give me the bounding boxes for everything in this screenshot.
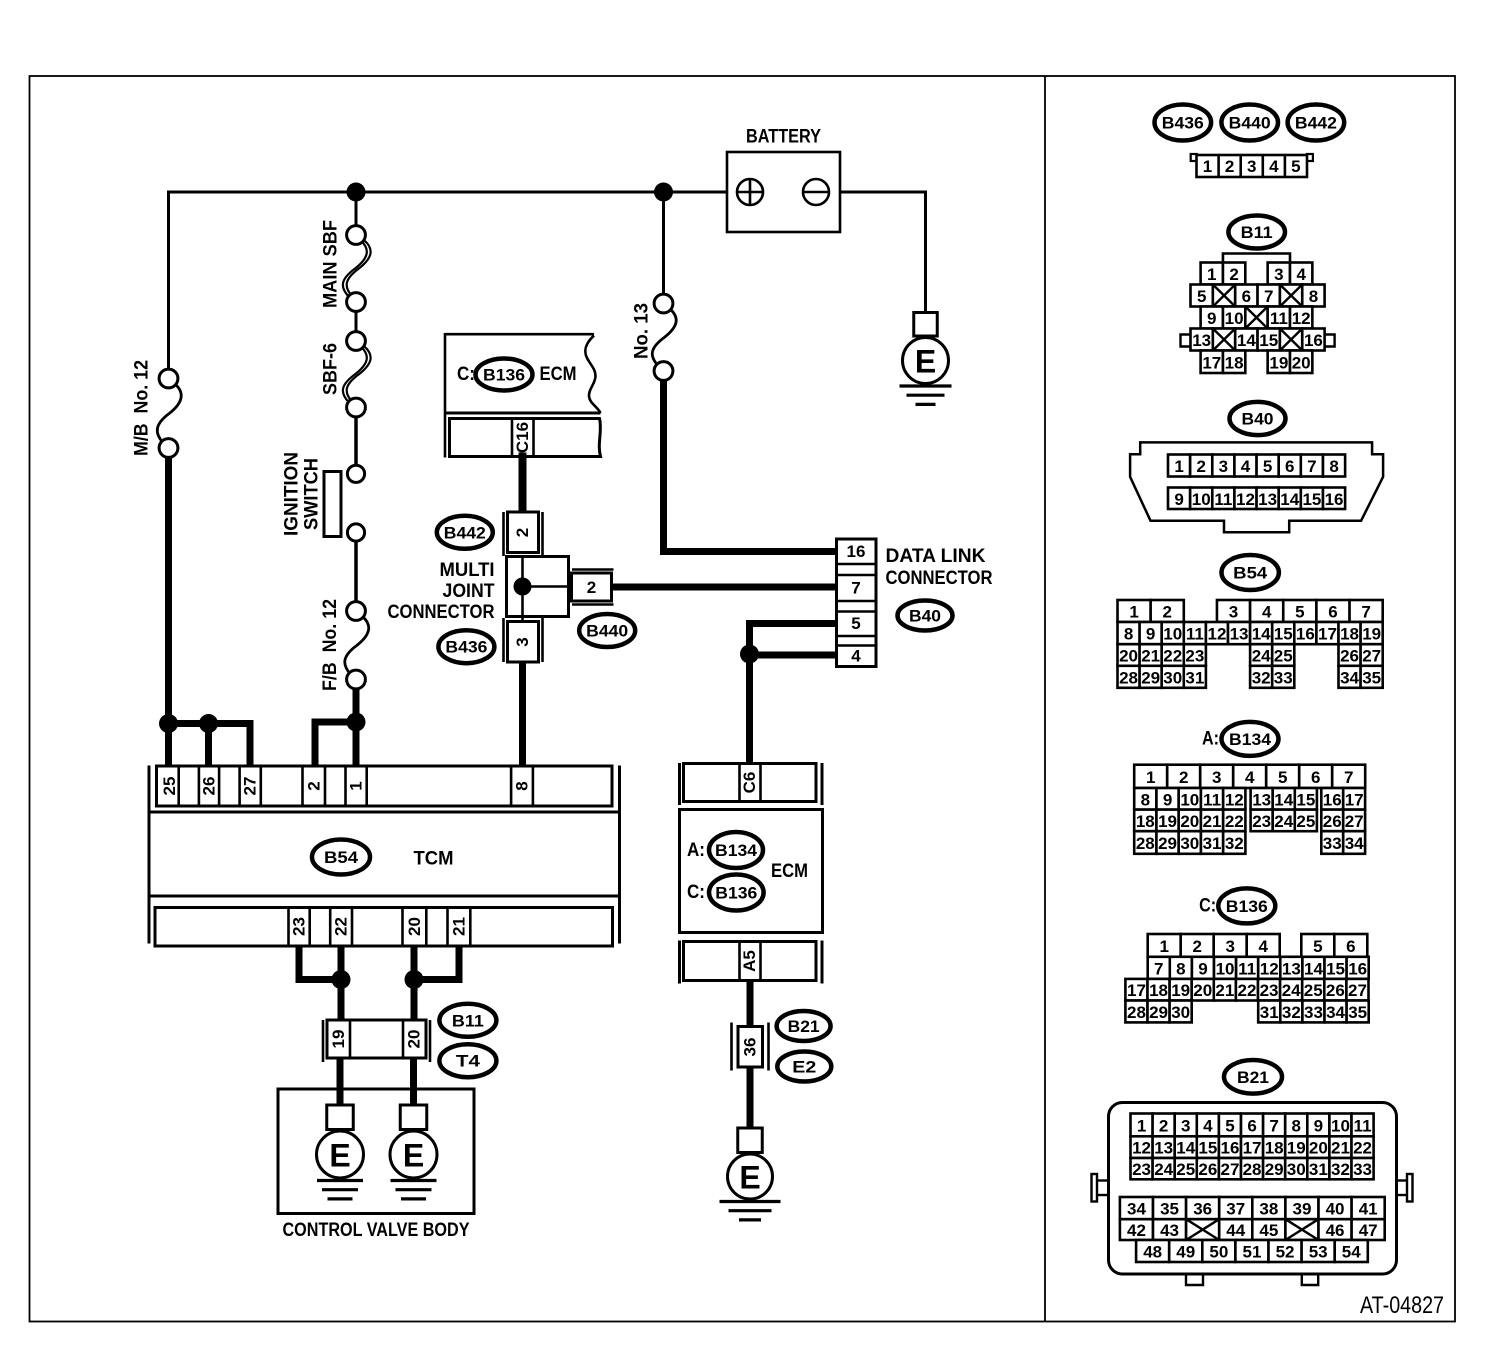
connector ref A:B134 oval [709, 832, 763, 868]
svg-text:25: 25 [160, 777, 179, 796]
svg-text:28: 28 [1127, 1003, 1146, 1022]
svg-text:15: 15 [1302, 490, 1321, 509]
svg-text:B21: B21 [788, 1017, 820, 1036]
svg-text:B54: B54 [1233, 564, 1268, 583]
svg-text:10: 10 [1216, 959, 1235, 978]
ECM block C:B136 [585, 336, 600, 414]
connector ref B11 oval [439, 1004, 496, 1037]
svg-text:12: 12 [1207, 625, 1226, 644]
svg-text:27: 27 [1345, 812, 1364, 831]
svg-text:A:: A: [1202, 728, 1219, 749]
svg-text:1: 1 [1207, 265, 1216, 284]
svg-text:BATTERY: BATTERY [746, 127, 821, 148]
svg-text:35: 35 [1348, 1003, 1367, 1022]
svg-text:3: 3 [1219, 457, 1228, 476]
wire junction to ECM C6 (thick) [746, 654, 753, 764]
junction rail / MAIN SBF [347, 183, 366, 202]
svg-text:C16: C16 [513, 422, 532, 453]
svg-text:7: 7 [1361, 603, 1370, 622]
svg-text:29: 29 [1141, 668, 1160, 687]
svg-text:16: 16 [1325, 490, 1344, 509]
svg-text:29: 29 [1265, 1160, 1284, 1179]
svg-text:44: 44 [1226, 1221, 1245, 1240]
ECM A5 connector row [684, 942, 817, 981]
svg-text:31: 31 [1203, 834, 1222, 853]
TCM top connector row [157, 766, 613, 806]
connector ref B440 oval (panel) [1221, 105, 1278, 141]
svg-text:31: 31 [1185, 668, 1204, 687]
svg-text:37: 37 [1226, 1200, 1245, 1219]
svg-text:16: 16 [847, 542, 866, 561]
svg-text:34: 34 [1326, 1003, 1345, 1022]
svg-text:9: 9 [1314, 1116, 1323, 1135]
svg-text:7: 7 [851, 579, 860, 598]
svg-text:34: 34 [1340, 668, 1359, 687]
svg-text:38: 38 [1259, 1200, 1278, 1219]
svg-text:20: 20 [1180, 812, 1199, 831]
svg-text:DATA LINK: DATA LINK [886, 546, 986, 567]
svg-text:20: 20 [1309, 1139, 1328, 1158]
svg-text:7: 7 [1307, 457, 1316, 476]
svg-text:A:: A: [687, 840, 705, 861]
ignition switch [324, 472, 341, 537]
svg-text:33: 33 [1353, 1160, 1372, 1179]
svg-text:30: 30 [1287, 1160, 1306, 1179]
fuse No. 13 [652, 309, 676, 366]
svg-text:9: 9 [1198, 959, 1207, 978]
svg-text:3: 3 [1225, 937, 1234, 956]
svg-text:14: 14 [1280, 490, 1299, 509]
control valve body box [278, 1089, 474, 1214]
connector ref B21 oval (panel) [1224, 1060, 1282, 1094]
junction TCM 23/22 [332, 970, 351, 989]
svg-text:15: 15 [1198, 1139, 1217, 1158]
svg-text:27: 27 [1362, 647, 1381, 666]
TCM connector rails [148, 766, 151, 944]
svg-text:34: 34 [1345, 834, 1364, 853]
connector B40 pinout [1130, 442, 1383, 532]
svg-text:F/B No. 12: F/B No. 12 [320, 599, 341, 691]
svg-text:15: 15 [1274, 625, 1293, 644]
connector ref B436 oval [438, 630, 494, 663]
svg-text:14: 14 [1252, 625, 1271, 644]
svg-text:12: 12 [1225, 790, 1244, 809]
svg-text:49: 49 [1176, 1243, 1195, 1262]
svg-text:32: 32 [1282, 1003, 1301, 1022]
svg-text:15: 15 [1326, 959, 1345, 978]
svg-text:24: 24 [1274, 812, 1293, 831]
wire data link connector pin 4 (thick) [750, 652, 837, 659]
junction pins 1/2 [347, 713, 366, 732]
svg-text:33: 33 [1323, 834, 1342, 853]
svg-text:12: 12 [1260, 959, 1279, 978]
svg-text:1: 1 [347, 781, 366, 790]
svg-text:1: 1 [1203, 157, 1212, 176]
svg-text:30: 30 [1180, 834, 1199, 853]
battery [727, 152, 840, 232]
junction TCM 21/20 [405, 970, 424, 989]
svg-text:11: 11 [1354, 1116, 1372, 1135]
wire battery minus to lamp [816, 191, 926, 194]
wire top power rail [167, 191, 750, 194]
svg-text:C:: C: [1199, 896, 1216, 917]
svg-text:E: E [329, 1138, 350, 1174]
svg-text:5: 5 [1225, 1116, 1234, 1135]
svg-text:B11: B11 [1241, 223, 1273, 242]
ground E (ECM) [738, 1128, 763, 1153]
svg-text:1: 1 [1146, 768, 1155, 787]
wire multi joint connector to data link connector pin 7 (thick) [610, 584, 837, 591]
fuse M/B No. 12 [157, 384, 181, 443]
svg-text:B442: B442 [1295, 114, 1337, 133]
svg-text:E: E [403, 1138, 424, 1174]
svg-text:7: 7 [1269, 1116, 1278, 1135]
svg-text:CONNECTOR: CONNECTOR [886, 568, 993, 589]
svg-text:22: 22 [332, 917, 351, 936]
svg-text:29: 29 [1158, 834, 1177, 853]
svg-text:35: 35 [1160, 1200, 1179, 1219]
svg-text:39: 39 [1292, 1200, 1311, 1219]
svg-text:25: 25 [1304, 981, 1323, 1000]
svg-text:E2: E2 [792, 1058, 816, 1077]
svg-text:20: 20 [1193, 981, 1212, 1000]
svg-text:6: 6 [1285, 457, 1294, 476]
ground E solenoid left [327, 1105, 354, 1130]
svg-text:19: 19 [1362, 625, 1381, 644]
svg-text:29: 29 [1149, 1003, 1168, 1022]
svg-text:32: 32 [1331, 1160, 1350, 1179]
svg-text:20: 20 [405, 917, 424, 936]
svg-text:19: 19 [1269, 353, 1288, 372]
wire multi joint connector pin 3 to TCM pin 8 (thick) [519, 662, 526, 766]
connector ref B442 oval [437, 516, 493, 549]
TCM bottom connector row [155, 908, 613, 947]
svg-text:2: 2 [1196, 457, 1205, 476]
connector ref B21 oval [777, 1011, 831, 1041]
wire MAIN SBF to SBF-6 [355, 311, 358, 333]
svg-text:46: 46 [1326, 1221, 1345, 1240]
svg-text:24: 24 [1252, 647, 1271, 666]
svg-text:CONTROL VALVE BODY: CONTROL VALVE BODY [283, 1220, 470, 1241]
svg-text:25: 25 [1296, 812, 1315, 831]
svg-text:3: 3 [1181, 1116, 1190, 1135]
svg-text:17: 17 [1345, 790, 1364, 809]
multi joint connector side pin 2 box [572, 568, 614, 571]
connector ref B436 oval (panel) [1155, 105, 1212, 141]
svg-text:1: 1 [1137, 1116, 1146, 1135]
svg-text:27: 27 [1220, 1160, 1239, 1179]
svg-text:4: 4 [1203, 1116, 1213, 1135]
svg-text:24: 24 [1154, 1160, 1173, 1179]
wire M/B fuse to TCM pin 25 (thick) [165, 457, 172, 767]
svg-text:10: 10 [1163, 625, 1182, 644]
wire data link connector pin 5 (thick) [750, 620, 837, 627]
wire TCM pin 21 (thick) [456, 946, 463, 980]
svg-text:2: 2 [1179, 768, 1188, 787]
svg-text:13: 13 [1282, 959, 1301, 978]
svg-text:16: 16 [1296, 625, 1315, 644]
svg-text:11: 11 [1238, 959, 1256, 978]
svg-text:13: 13 [1154, 1139, 1173, 1158]
svg-text:4: 4 [1296, 265, 1306, 284]
svg-text:8: 8 [1176, 959, 1185, 978]
svg-text:13: 13 [1230, 625, 1249, 644]
connector C:B136 pinout [1148, 934, 1181, 957]
svg-text:33: 33 [1304, 1003, 1323, 1022]
svg-text:11: 11 [1214, 490, 1232, 509]
wire TCM pin 20 to B11 pin 20 (thick) [411, 946, 418, 1021]
svg-text:27: 27 [1348, 981, 1367, 1000]
svg-text:26: 26 [1340, 647, 1359, 666]
svg-text:15: 15 [1259, 331, 1278, 350]
wire rail to fuse No. 13 [662, 192, 665, 295]
multi joint connector pin 3 box [508, 622, 539, 663]
svg-text:18: 18 [1340, 625, 1359, 644]
svg-text:23: 23 [290, 917, 309, 936]
svg-text:1: 1 [1129, 603, 1138, 622]
junction rail / No. 13 [654, 183, 673, 202]
connector ref B54 oval (panel) [1222, 555, 1279, 590]
svg-text:9: 9 [1207, 309, 1216, 328]
svg-text:17: 17 [1243, 1139, 1262, 1158]
svg-text:B134: B134 [715, 841, 758, 860]
svg-text:26: 26 [1323, 812, 1342, 831]
svg-text:5: 5 [1278, 768, 1287, 787]
svg-text:51: 51 [1242, 1243, 1261, 1262]
svg-text:25: 25 [1274, 647, 1293, 666]
svg-text:3: 3 [513, 637, 532, 646]
svg-text:16: 16 [1323, 790, 1342, 809]
ECM connector rails [678, 763, 681, 805]
svg-text:12: 12 [1292, 309, 1311, 328]
svg-text:31: 31 [1260, 1003, 1279, 1022]
svg-text:10: 10 [1192, 490, 1211, 509]
svg-text:34: 34 [1127, 1200, 1146, 1219]
connector ref T4 oval [439, 1044, 496, 1077]
connector ref C:B136 oval (ECM) [709, 875, 764, 911]
wire junction to TCM pin 2 (thick) [315, 719, 359, 726]
svg-text:24: 24 [1282, 981, 1301, 1000]
wire SBF-6 to ignition switch [354, 417, 358, 466]
svg-text:30: 30 [1171, 1003, 1190, 1022]
connector ref B40 oval [898, 601, 953, 631]
svg-text:31: 31 [1309, 1160, 1328, 1179]
connector B21 pinout [1109, 1103, 1397, 1275]
svg-text:12: 12 [1236, 490, 1255, 509]
svg-text:2: 2 [1192, 937, 1201, 956]
svg-text:53: 53 [1309, 1243, 1328, 1262]
svg-text:A5: A5 [740, 950, 759, 972]
svg-text:21: 21 [1215, 981, 1234, 1000]
svg-text:B11: B11 [452, 1011, 484, 1030]
ground E (battery) [914, 313, 938, 337]
svg-text:47: 47 [1359, 1221, 1378, 1240]
wire rail to MAIN SBF [355, 192, 358, 227]
svg-text:JOINT: JOINT [443, 581, 495, 602]
svg-text:23: 23 [1260, 981, 1279, 1000]
svg-text:27: 27 [241, 777, 260, 796]
svg-text:B436: B436 [445, 638, 487, 657]
svg-text:1: 1 [1174, 457, 1183, 476]
svg-text:7: 7 [1154, 959, 1163, 978]
connector ref E2 oval [777, 1052, 831, 1082]
ECM body [680, 810, 823, 933]
multi joint connector pin 2 box [508, 512, 539, 553]
svg-text:MAIN SBF: MAIN SBF [321, 220, 342, 308]
svg-text:10: 10 [1180, 790, 1199, 809]
svg-text:4: 4 [851, 647, 861, 666]
wire ignition switch to F/B fuse [354, 541, 358, 604]
svg-text:20: 20 [1292, 353, 1311, 372]
svg-text:B136: B136 [483, 366, 525, 385]
svg-text:14: 14 [1237, 331, 1256, 350]
svg-text:3: 3 [1247, 157, 1256, 176]
svg-text:IGNITION: IGNITION [282, 452, 303, 536]
svg-text:8: 8 [1124, 625, 1133, 644]
connector ref C:B136 oval (ECM top) [476, 359, 533, 391]
wire F/B fuse to TCM pin 1 (thick) [353, 689, 360, 767]
svg-text:21: 21 [449, 917, 468, 936]
junction DLC 4/5 to ECM C6 [740, 645, 759, 664]
svg-text:C6: C6 [740, 772, 759, 794]
svg-text:SWITCH: SWITCH [302, 458, 323, 530]
svg-text:4: 4 [1262, 603, 1272, 622]
svg-text:CONNECTOR: CONNECTOR [388, 602, 495, 623]
ground E solenoid right [400, 1105, 427, 1130]
svg-text:13: 13 [1192, 331, 1211, 350]
svg-text:19: 19 [329, 1030, 348, 1049]
connector ref B134 oval (panel) [1222, 722, 1279, 756]
svg-text:19: 19 [1158, 812, 1177, 831]
svg-text:17: 17 [1318, 625, 1337, 644]
svg-text:C:: C: [457, 364, 475, 385]
svg-text:18: 18 [1225, 353, 1244, 372]
svg-text:21: 21 [1331, 1139, 1350, 1158]
svg-text:B54: B54 [324, 848, 359, 867]
svg-text:8: 8 [513, 781, 532, 790]
svg-text:2: 2 [587, 578, 596, 597]
svg-text:22: 22 [1237, 981, 1256, 1000]
svg-text:B40: B40 [1242, 410, 1274, 429]
connector ref B136 oval (panel) [1218, 888, 1275, 923]
svg-text:42: 42 [1127, 1221, 1146, 1240]
svg-text:8: 8 [1329, 457, 1338, 476]
svg-text:4: 4 [1269, 157, 1279, 176]
svg-text:2: 2 [513, 528, 532, 537]
svg-text:ECM: ECM [771, 861, 808, 882]
wire TCM pin 23 (thick) [296, 946, 303, 980]
svg-text:7: 7 [1264, 287, 1273, 306]
panel divider [1044, 76, 1046, 1322]
junction pins 25/26/27 [159, 714, 178, 733]
svg-text:11: 11 [1186, 625, 1204, 644]
svg-text:6: 6 [1311, 768, 1320, 787]
svg-text:54: 54 [1342, 1243, 1361, 1262]
svg-text:4: 4 [1258, 937, 1268, 956]
svg-text:48: 48 [1143, 1243, 1162, 1262]
svg-text:B436: B436 [1162, 114, 1204, 133]
svg-text:B442: B442 [444, 523, 486, 542]
svg-text:TCM: TCM [414, 849, 454, 870]
TCM body [149, 811, 620, 814]
svg-text:20: 20 [405, 1030, 424, 1049]
svg-text:28: 28 [1136, 834, 1155, 853]
svg-text:2: 2 [1159, 1116, 1168, 1135]
svg-text:19: 19 [1171, 981, 1190, 1000]
svg-text:16: 16 [1348, 959, 1367, 978]
svg-text:21: 21 [1141, 647, 1160, 666]
svg-text:16: 16 [1304, 331, 1323, 350]
svg-text:23: 23 [1185, 647, 1204, 666]
svg-text:14: 14 [1304, 959, 1323, 978]
data link connector [837, 539, 877, 667]
svg-text:20: 20 [1119, 647, 1138, 666]
wire left column down to fuse M/B [167, 191, 170, 371]
svg-text:10: 10 [1225, 309, 1244, 328]
fusible link MAIN SBF [343, 240, 367, 296]
svg-text:9: 9 [1146, 625, 1155, 644]
svg-text:6: 6 [1247, 1116, 1256, 1135]
svg-text:9: 9 [1163, 790, 1172, 809]
svg-text:B40: B40 [909, 607, 941, 626]
svg-text:50: 50 [1209, 1243, 1228, 1262]
svg-text:3: 3 [1274, 265, 1283, 284]
connector B54 pinout [1118, 600, 1151, 622]
svg-text:E: E [915, 344, 936, 380]
fusible link SBF-6 [343, 346, 367, 402]
svg-text:5: 5 [851, 614, 860, 633]
fuse F/B No. 12 [345, 616, 369, 674]
svg-text:12: 12 [1132, 1139, 1151, 1158]
connector ref B442 oval (panel) [1288, 105, 1345, 141]
connector ref B440 oval [579, 614, 635, 647]
wire B11 pin 20 to solenoid (thick) [410, 1057, 417, 1106]
svg-text:30: 30 [1163, 668, 1182, 687]
svg-text:3: 3 [1212, 768, 1221, 787]
svg-text:ECM: ECM [540, 364, 577, 385]
svg-text:8: 8 [1141, 790, 1150, 809]
wire TCM pin 22 to B11 pin 19 (thick) [338, 946, 345, 1021]
svg-text:26: 26 [1198, 1160, 1217, 1179]
svg-text:11: 11 [1270, 309, 1288, 328]
svg-text:6: 6 [1346, 937, 1355, 956]
connector ref B40 oval (panel) [1230, 402, 1286, 435]
svg-text:4: 4 [1245, 768, 1255, 787]
svg-text:B136: B136 [1226, 897, 1268, 916]
svg-text:9: 9 [1174, 490, 1183, 509]
svg-text:B440: B440 [586, 622, 628, 641]
svg-text:2: 2 [1162, 603, 1171, 622]
svg-text:10: 10 [1331, 1116, 1350, 1135]
svg-text:36: 36 [741, 1038, 760, 1057]
svg-text:M/B No. 12: M/B No. 12 [132, 360, 153, 456]
svg-text:13: 13 [1258, 490, 1277, 509]
wire B11 pin 19 to solenoid (thick) [337, 1057, 344, 1106]
connector B11/T4 box [322, 1020, 325, 1062]
connector 36 box [730, 1023, 733, 1071]
svg-text:6: 6 [1328, 603, 1337, 622]
svg-text:33: 33 [1274, 668, 1293, 687]
connector ref B54 oval (TCM) [312, 840, 370, 875]
svg-text:52: 52 [1276, 1243, 1295, 1262]
wire ECM A5 to connector 36 (thick) [747, 981, 754, 1028]
wire ECM C16 to multi joint connector pin 2 (thick) [519, 457, 527, 513]
svg-text:No. 13: No. 13 [632, 303, 653, 359]
svg-text:5: 5 [1295, 603, 1304, 622]
svg-text:17: 17 [1127, 981, 1146, 1000]
svg-text:T4: T4 [456, 1052, 481, 1071]
svg-text:11: 11 [1203, 790, 1221, 809]
